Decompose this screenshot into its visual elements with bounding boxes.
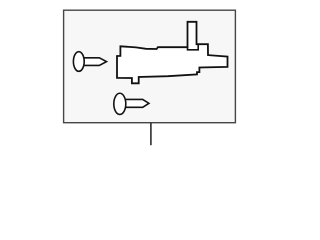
tab foot detail line [188,44,199,50]
screw 2 shaft [124,99,149,107]
screw 2 head [114,93,126,114]
screw 1 head [73,52,84,72]
part body outline (switch bracket) [117,22,228,84]
leader line [150,123,152,146]
diagram frame box [64,10,236,123]
screw 1 shaft [82,58,107,66]
